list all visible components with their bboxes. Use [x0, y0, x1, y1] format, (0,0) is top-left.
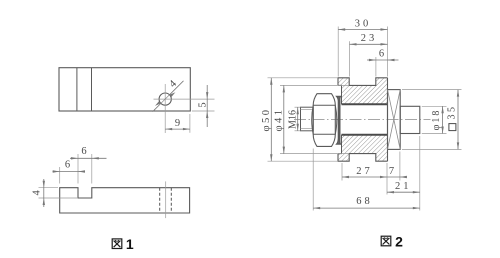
dim 6 line [367, 59, 399, 61]
roller web/hub step bottom left [338, 135, 342, 154]
roller outline bottom [338, 154, 388, 162]
dim 30 line [338, 29, 387, 31]
dim 9 line [165, 128, 190, 130]
hidden hole line right [170, 188, 172, 213]
hole circle [159, 93, 171, 105]
dim 5 line [206, 85, 208, 127]
hex nut M16 body [313, 94, 335, 147]
ext lines [341, 163, 343, 181]
dim 23 line [350, 43, 388, 45]
svg-text:2: 2 [395, 233, 403, 249]
nut chamfer arc left [312, 105, 314, 134]
svg-text:35: 35 [447, 105, 458, 120]
nut face line upper [313, 104, 335, 106]
svg-text:6: 6 [65, 159, 70, 170]
svg-text:6: 6 [81, 146, 86, 157]
dim square35 line [457, 90, 459, 150]
svg-text:4: 4 [167, 78, 179, 90]
roller outline top [338, 78, 388, 86]
hole horizontal center line [154, 98, 215, 100]
dim 4 extensions [39, 187, 59, 189]
svg-text:9: 9 [175, 118, 180, 129]
dim M16 line [297, 107, 299, 131]
center line bottom view [165, 181, 167, 218]
leader arrows [155, 92, 175, 106]
bore / shank bottom line [342, 134, 388, 136]
svg-text:4: 4 [31, 190, 42, 196]
dim phi18 line [442, 106, 444, 133]
ext lines [268, 77, 339, 79]
roller right face [387, 78, 389, 161]
svg-text:1: 1 [126, 236, 134, 252]
svg-text:φ41: φ41 [274, 107, 285, 131]
dim 4 line [43, 179, 45, 207]
dim 5 arrows [206, 92, 208, 118]
svg-text:68: 68 [356, 196, 373, 207]
X mark diagonal 1 [388, 90, 401, 150]
dim phi41 line [283, 85, 285, 153]
dim 6 lower extensions [59, 167, 61, 184]
bolt end (M16) [301, 107, 314, 131]
ext lines [422, 105, 447, 107]
square section with X mark [388, 90, 401, 150]
hole vertical center line [164, 84, 166, 133]
svg-text:23: 23 [361, 33, 378, 44]
dim 6 upper line [70, 157, 107, 159]
svg-text:6: 6 [379, 49, 384, 60]
dim 7 line [387, 176, 407, 178]
dim 68 line [313, 207, 420, 209]
dim 27 line [342, 176, 387, 178]
dim 6 lower line [53, 171, 86, 173]
svg-text:27: 27 [356, 166, 373, 177]
fig2 caption 図 glyph [381, 236, 391, 246]
center line axis [294, 119, 431, 121]
svg-text:30: 30 [355, 18, 372, 29]
top view plate outline [59, 68, 190, 111]
nut chamfer arc right [335, 105, 337, 134]
dim 21 line [387, 191, 420, 193]
bore / shank top line [342, 103, 388, 105]
notch line 2 (top view) [91, 68, 93, 111]
X mark diagonal 2 [388, 90, 401, 150]
dim 5 extension lines [192, 110, 215, 112]
dim 9 arrows [165, 128, 190, 130]
svg-text:21: 21 [395, 181, 412, 192]
square symbol of 35 [449, 124, 456, 131]
roller section hatch top [338, 78, 388, 105]
shaft end phi18 [400, 106, 420, 133]
leader line through circle [161, 95, 170, 104]
ext lines [337, 27, 339, 77]
hidden hole line left [159, 188, 161, 213]
bolt thread minor lines [301, 109, 314, 111]
dim 6 upper (notch width) extensions [77, 154, 79, 184]
roller web/hub step top left [338, 85, 342, 104]
roller section hatch bottom [338, 135, 388, 162]
svg-text:φ18: φ18 [431, 109, 442, 131]
washer [337, 97, 341, 145]
svg-text:7: 7 [389, 166, 394, 177]
notch line 1 (top view) [76, 68, 78, 111]
svg-text:M16: M16 [287, 110, 298, 129]
dim 9 extension right [189, 114, 191, 133]
bottom view outline [60, 188, 190, 213]
leader line for hole dia 4 [153, 81, 184, 112]
fig1 caption 図 glyph [112, 239, 122, 249]
svg-text:5: 5 [197, 102, 208, 107]
svg-text:φ50: φ50 [261, 107, 272, 131]
nut face line lower [313, 133, 335, 135]
dim phi50 line [270, 78, 272, 161]
